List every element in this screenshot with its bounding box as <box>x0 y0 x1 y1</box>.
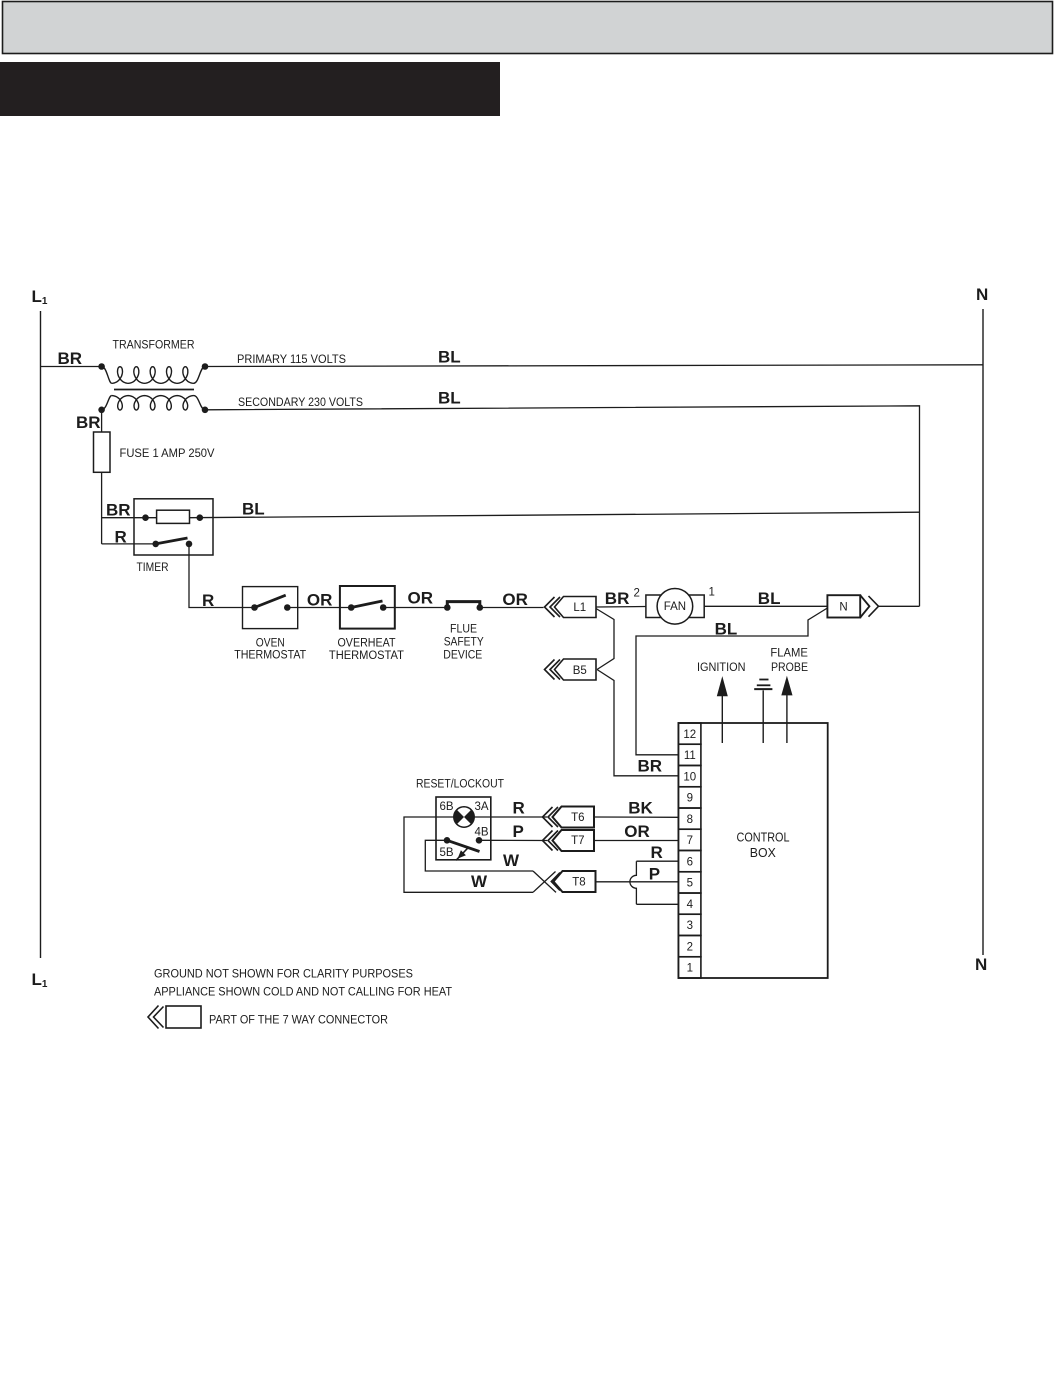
junction primary right <box>202 363 209 370</box>
fuse F1 1A 250V <box>94 432 111 472</box>
svg-text:BR: BR <box>106 501 131 520</box>
timer switch contact right <box>186 541 193 548</box>
svg-text:L1: L1 <box>32 287 48 307</box>
svg-text:4: 4 <box>687 899 694 911</box>
svg-text:L1: L1 <box>32 970 48 990</box>
reset switch blade <box>447 840 480 851</box>
svg-text:FLUE: FLUE <box>450 624 477 636</box>
junction secondary right <box>202 407 209 414</box>
svg-text:PRIMARY 115 VOLTS: PRIMARY 115 VOLTS <box>237 354 346 366</box>
wire jumper pin4 <box>636 903 678 905</box>
svg-text:7: 7 <box>687 835 693 847</box>
svg-text:T7: T7 <box>571 835 584 847</box>
svg-text:RESET/LOCKOUT: RESET/LOCKOUT <box>416 779 504 791</box>
svg-text:1: 1 <box>687 963 693 975</box>
header black bar <box>0 62 500 116</box>
wire timer to oven thermostat row <box>189 544 255 608</box>
svg-text:CONTROL: CONTROL <box>737 830 790 845</box>
svg-text:OR: OR <box>307 591 333 610</box>
oven thermostat box <box>243 587 298 629</box>
svg-text:OR: OR <box>624 822 650 841</box>
svg-text:SECONDARY 230 VOLTS: SECONDARY 230 VOLTS <box>238 397 363 409</box>
wire fan to connector N (BL) <box>704 605 827 607</box>
fan motor M1 <box>657 589 693 625</box>
ignition electrode arrow <box>721 696 723 743</box>
svg-text:R: R <box>202 591 214 610</box>
svg-text:N: N <box>975 955 987 974</box>
wire connector L1/B5 junction to control box pin 10 <box>596 609 614 670</box>
timer box <box>134 499 213 555</box>
svg-text:PART OF THE 7 WAY CONNECTOR: PART OF THE 7 WAY CONNECTOR <box>209 1015 388 1027</box>
svg-text:BL: BL <box>715 620 738 639</box>
oven thermostat contact right <box>284 604 291 611</box>
svg-text:FAN: FAN <box>664 601 686 613</box>
svg-text:TRANSFORMER: TRANSFORMER <box>113 340 195 352</box>
wire lamp to W lower <box>404 817 533 892</box>
svg-text:T6: T6 <box>571 812 584 824</box>
svg-text:BR: BR <box>638 757 663 776</box>
node L1 bus (left rail) <box>40 311 42 958</box>
flue safety contact right <box>477 604 484 611</box>
svg-text:W: W <box>471 872 488 891</box>
reset switch actuation arrow <box>456 847 469 860</box>
wire BR into timer contact <box>102 517 157 519</box>
svg-text:OR: OR <box>502 590 528 609</box>
timer switch contact left <box>152 541 159 548</box>
wire fan BL branch to control box pin 11 <box>636 608 827 755</box>
connector T7 (7-way) <box>553 830 595 851</box>
svg-text:DEVICE: DEVICE <box>443 650 482 662</box>
control box <box>678 723 827 978</box>
svg-text:11: 11 <box>684 750 696 762</box>
wire jumper vertical with hop over P <box>630 861 637 904</box>
svg-text:3: 3 <box>687 920 693 932</box>
oven thermostat contact left <box>251 604 258 611</box>
svg-text:5: 5 <box>687 878 693 890</box>
svg-text:THERMOSTAT: THERMOSTAT <box>234 650 306 662</box>
connector T6 (7-way) <box>553 807 595 828</box>
svg-text:9: 9 <box>687 793 693 805</box>
wire connector N to secondary drop <box>879 605 920 607</box>
wire W upper diagonal to T8 <box>533 871 556 892</box>
svg-text:IGNITION: IGNITION <box>697 662 746 674</box>
wire T7 to control box pin 7 (OR) <box>594 840 678 842</box>
svg-text:APPLIANCE SHOWN COLD AND NOT C: APPLIANCE SHOWN COLD AND NOT CALLING FOR… <box>154 987 452 999</box>
connector B5 (7-way) <box>555 659 597 680</box>
svg-text:2: 2 <box>687 941 693 953</box>
svg-text:BL: BL <box>242 500 265 519</box>
wire connector L1 to fan (BR) <box>596 606 646 609</box>
svg-text:4B: 4B <box>475 827 489 839</box>
overheat contact right <box>380 604 387 611</box>
timer motor contact terminal right <box>197 514 204 521</box>
wire secondary 230V (BL) to right drop <box>205 406 920 607</box>
svg-text:GROUND NOT SHOWN FOR CLARITY P: GROUND NOT SHOWN FOR CLARITY PURPOSES <box>154 969 413 981</box>
svg-text:12: 12 <box>683 729 696 741</box>
svg-text:BR: BR <box>76 413 101 432</box>
wire jumper pin6 <box>636 860 678 862</box>
control box terminal strip pins 1-12 <box>678 723 701 744</box>
svg-text:BL: BL <box>438 348 461 367</box>
flue safety closed blade <box>447 602 480 606</box>
svg-text:BL: BL <box>438 389 461 408</box>
overheat blade <box>351 601 382 608</box>
svg-text:P: P <box>649 865 660 884</box>
svg-text:BR: BR <box>58 349 83 368</box>
node N bus (right rail) <box>982 309 984 955</box>
svg-text:OVEN: OVEN <box>256 638 285 650</box>
svg-text:8: 8 <box>687 814 693 826</box>
transformer T1 secondary winding <box>102 396 112 410</box>
svg-text:TIMER: TIMER <box>137 562 169 574</box>
wire R into timer switch <box>102 543 156 545</box>
lockout lamp DS1 <box>454 807 474 827</box>
svg-text:P: P <box>513 822 524 841</box>
svg-text:5B: 5B <box>440 847 454 859</box>
svg-text:T8: T8 <box>572 877 585 889</box>
svg-text:OVERHEAT: OVERHEAT <box>338 638 396 650</box>
svg-text:FLAME: FLAME <box>770 648 808 660</box>
svg-text:B5: B5 <box>573 665 587 677</box>
wire T8 to control box pin 5 (P) <box>596 881 679 883</box>
wire T6 to control box pin 8 (BK) <box>594 816 678 818</box>
connector N (7-way) <box>827 595 860 617</box>
wire L1 to transformer primary (BR) <box>41 366 102 368</box>
svg-text:N: N <box>839 601 847 613</box>
wire reset switch to W upper <box>425 840 533 871</box>
svg-text:BR: BR <box>605 589 630 608</box>
svg-text:THERMOSTAT: THERMOSTAT <box>329 650 404 662</box>
svg-text:R: R <box>513 799 525 818</box>
legend 7-way connector symbol <box>166 1006 201 1028</box>
timer motor contact terminal left <box>142 514 149 521</box>
svg-text:PROBE: PROBE <box>771 662 808 674</box>
header gray bar <box>3 2 1053 54</box>
wire oven to overheat (OR) <box>287 607 351 609</box>
wire reset switch 4B to connector T7 (P) <box>479 839 547 841</box>
flame probe arrow <box>786 695 788 743</box>
svg-text:6: 6 <box>687 856 693 868</box>
wire timer BL to right drop <box>190 512 920 518</box>
svg-text:10: 10 <box>683 771 696 783</box>
connector L1 (7-way) <box>555 597 597 618</box>
svg-text:N: N <box>976 285 988 304</box>
transformer T1 primary winding <box>102 367 112 384</box>
svg-text:L1: L1 <box>573 602 586 614</box>
junction primary left <box>98 363 105 370</box>
svg-text:SAFETY: SAFETY <box>444 637 484 649</box>
wire overheat to flue device (OR) <box>383 607 447 609</box>
transformer T1 core <box>114 389 194 391</box>
reset lockout box <box>436 797 491 860</box>
svg-text:2: 2 <box>634 588 640 600</box>
wire primary 115V to N bus (BL) <box>205 365 983 367</box>
svg-text:3A: 3A <box>475 801 489 813</box>
connector T8 (7-way) <box>554 871 596 892</box>
overheat thermostat box <box>340 586 395 629</box>
svg-text:FUSE 1 AMP 250V: FUSE 1 AMP 250V <box>120 448 215 460</box>
reset switch contact left (5B) <box>444 837 451 844</box>
timer motor element <box>157 510 190 523</box>
oven thermostat blade <box>255 595 286 607</box>
svg-text:6B: 6B <box>440 801 454 813</box>
svg-text:1: 1 <box>709 587 715 599</box>
reset switch contact right (4B) <box>476 837 483 844</box>
svg-text:R: R <box>651 843 663 862</box>
timer switch blade <box>156 538 188 544</box>
svg-text:BOX: BOX <box>750 845 776 860</box>
wire lamp to connector T6 (R) <box>474 816 547 818</box>
overheat contact left <box>348 604 355 611</box>
fan motor M1 terminals <box>646 595 704 618</box>
wire flue device to connector L1 (OR) <box>480 607 544 609</box>
svg-text:OR: OR <box>408 589 434 608</box>
svg-text:BL: BL <box>758 589 781 608</box>
wire fuse to timer rows <box>101 472 103 544</box>
wire W lower diagonal to T8 <box>533 872 556 893</box>
junction secondary left <box>98 407 105 414</box>
flame probe ground electrode <box>762 690 764 743</box>
svg-text:BK: BK <box>628 799 653 818</box>
svg-text:W: W <box>503 851 520 870</box>
flue safety contact left <box>444 604 451 611</box>
wire secondary left to fuse <box>101 410 103 432</box>
